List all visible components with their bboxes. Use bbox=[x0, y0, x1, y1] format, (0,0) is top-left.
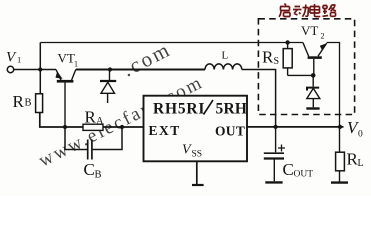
svg-text:RH5RI: RH5RI bbox=[153, 101, 205, 118]
input terminal Vi bbox=[7, 66, 13, 72]
启 bbox=[279, 4, 290, 17]
wire top rail bbox=[40, 42, 303, 44]
watermark www.elecfans.com bbox=[35, 72, 207, 172]
node Vo / RL tap bbox=[338, 125, 342, 129]
label VSS pin bbox=[182, 143, 202, 160]
label COUT bbox=[283, 160, 314, 180]
label 启动电路 (startup circuit) bbox=[279, 4, 336, 17]
zener diode DZ bbox=[306, 75, 320, 108]
transistor Q1 VT1 bbox=[56, 70, 76, 128]
node VT1 base / RA left bbox=[63, 125, 67, 129]
svg-text:OUT: OUT bbox=[294, 170, 314, 180]
电 bbox=[310, 4, 320, 17]
svg-text:C: C bbox=[84, 160, 95, 179]
diode D1 (catch diode) bbox=[100, 70, 116, 104]
svg-text:B: B bbox=[25, 98, 32, 109]
node RS top on rail bbox=[285, 40, 289, 44]
svg-text:5RH: 5RH bbox=[216, 101, 248, 118]
label RA bbox=[85, 108, 105, 128]
inductor L bbox=[205, 64, 242, 70]
svg-text:S: S bbox=[274, 56, 280, 67]
svg-text:A: A bbox=[96, 116, 104, 127]
svg-text:VT: VT bbox=[301, 23, 318, 38]
transistor Q2 VT2 bbox=[303, 43, 327, 76]
wire RB bottom to EXT bbox=[40, 113, 144, 128]
node input branch bbox=[38, 67, 42, 71]
capacitor CB bbox=[65, 127, 122, 160]
路 bbox=[323, 5, 337, 16]
svg-text:SS: SS bbox=[192, 150, 203, 160]
wire vertical branch to rail and RB bbox=[39, 43, 41, 94]
wire VT1 collector to inductor bbox=[76, 69, 205, 71]
resistor RS bbox=[283, 43, 292, 76]
ground VSS bbox=[192, 161, 204, 185]
svg-text:R: R bbox=[13, 92, 25, 111]
svg-text:VT: VT bbox=[58, 51, 75, 66]
wire VT2 emitter rail corner down to output bbox=[327, 43, 340, 127]
svg-text:L: L bbox=[222, 50, 229, 62]
label RB bbox=[13, 92, 32, 111]
startup circuit dashed box bbox=[258, 19, 354, 115]
svg-text:C: C bbox=[283, 160, 294, 179]
label RS bbox=[262, 48, 279, 68]
svg-text:B: B bbox=[95, 170, 102, 181]
resistor RA bbox=[83, 124, 103, 130]
svg-text:R: R bbox=[262, 48, 274, 67]
node RA right / EXT bbox=[120, 125, 124, 129]
svg-text:EXT: EXT bbox=[149, 123, 181, 138]
label RL bbox=[347, 150, 364, 170]
node switch/diode bbox=[108, 67, 112, 71]
wire input to branch node bbox=[14, 69, 56, 71]
node VT2 base / zener bbox=[311, 73, 316, 78]
resistor RB bbox=[36, 94, 43, 113]
label VT1 bbox=[58, 51, 79, 69]
svg-text:1: 1 bbox=[17, 55, 21, 65]
svg-text:2: 2 bbox=[321, 32, 325, 41]
svg-text:V: V bbox=[182, 143, 192, 158]
svg-text:R: R bbox=[85, 108, 97, 127]
wire RS bottom to VT2 base node bbox=[288, 74, 314, 76]
svg-text:L: L bbox=[358, 158, 364, 169]
label CB bbox=[84, 160, 102, 181]
capacitor COUT bbox=[264, 127, 285, 182]
label V1 bbox=[6, 50, 21, 66]
svg-text:0: 0 bbox=[358, 130, 363, 140]
wire output rail bbox=[247, 126, 344, 128]
resistor RL bbox=[331, 127, 348, 183]
IC U1 RH5RI/5RH bbox=[144, 96, 248, 162]
label VT2 bbox=[301, 23, 325, 41]
watermark fragment .com bbox=[118, 37, 175, 82]
wire inductor to output corner bbox=[242, 70, 276, 127]
动 bbox=[293, 5, 309, 17]
label Vo bbox=[347, 118, 363, 140]
svg-text:OUT: OUT bbox=[215, 124, 245, 139]
svg-text:1: 1 bbox=[74, 60, 78, 69]
node COUT tap bbox=[274, 125, 278, 129]
